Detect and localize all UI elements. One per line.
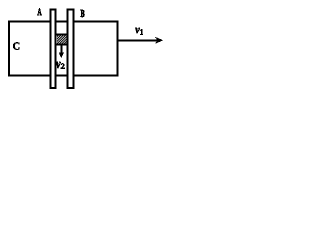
label A xyxy=(38,9,42,16)
porous plug hatch fill xyxy=(57,36,67,44)
label v1 xyxy=(135,28,140,33)
label B xyxy=(81,10,85,17)
arrow v2 head xyxy=(59,53,64,59)
porous plug hatched block bottom line xyxy=(56,44,68,46)
arrow v1 shaft (rightward) xyxy=(119,39,158,41)
arrow v1 head xyxy=(155,37,163,44)
arrow v2 shaft (downward) xyxy=(60,46,62,54)
vessel rectangle (tank C + right chamber outline) xyxy=(9,21,118,75)
wall B (right vertical bar) xyxy=(68,9,74,88)
wall A (left vertical bar) xyxy=(51,9,56,88)
label C xyxy=(13,42,19,49)
porous plug hatched block top line xyxy=(56,34,68,36)
label v2 xyxy=(56,62,60,68)
